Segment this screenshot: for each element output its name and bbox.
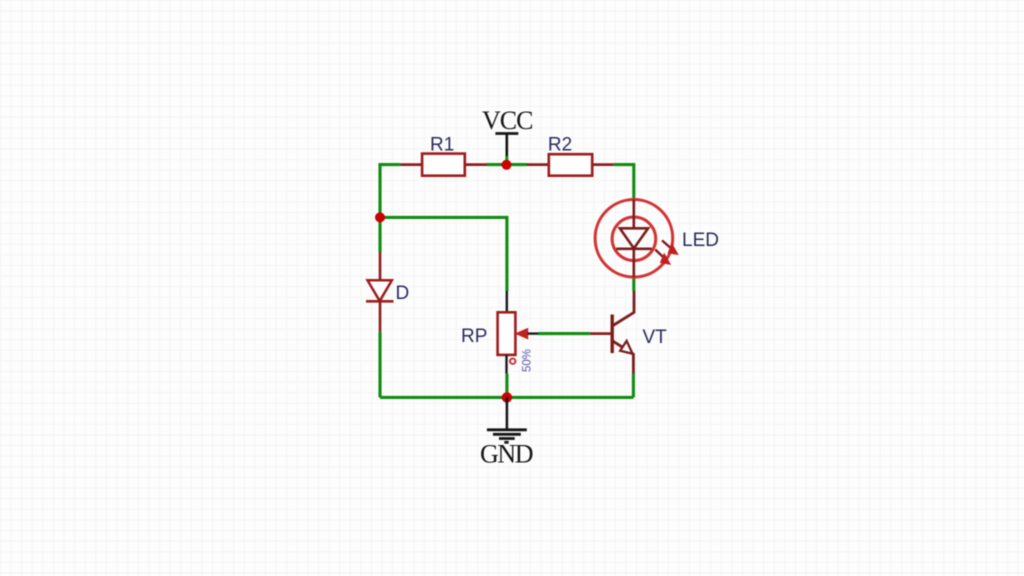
wire RP bottom green	[505, 374, 508, 398]
node junction bottom	[502, 392, 512, 402]
LED	[595, 200, 678, 278]
svg-text:R1: R1	[430, 135, 454, 156]
transistor VT	[590, 291, 634, 374]
wire LED to collector green	[632, 277, 635, 291]
potentiometer RP	[498, 291, 538, 374]
wire top-left green segment	[380, 165, 400, 167]
wire R2 right green segment	[614, 165, 634, 200]
wire bottom horizontal	[380, 396, 633, 399]
svg-text:VCC: VCC	[482, 106, 534, 135]
wire R2 left green segment	[507, 163, 528, 166]
wire left vertical lower	[378, 332, 381, 398]
svg-text:LED: LED	[682, 230, 719, 251]
node junction VCC	[502, 160, 512, 170]
svg-text:R2: R2	[548, 135, 572, 156]
wire wiper green segment	[538, 332, 590, 335]
svg-text:50%: 50%	[522, 349, 534, 372]
wire emitter to bottom green	[632, 374, 635, 398]
resistor R1	[400, 154, 486, 176]
wire left vertical upper	[378, 165, 381, 252]
resistor R2	[527, 154, 614, 176]
ground	[487, 397, 527, 442]
diode D	[366, 252, 394, 332]
svg-text:RP: RP	[461, 326, 487, 347]
wire R1 right green segment	[487, 163, 507, 166]
VCC power symbol	[495, 134, 518, 165]
svg-text:VT: VT	[643, 327, 668, 348]
node junction left	[375, 212, 385, 222]
svg-text:GND: GND	[480, 440, 534, 469]
svg-text:D: D	[396, 283, 410, 304]
wire node junction to RP	[380, 217, 507, 291]
